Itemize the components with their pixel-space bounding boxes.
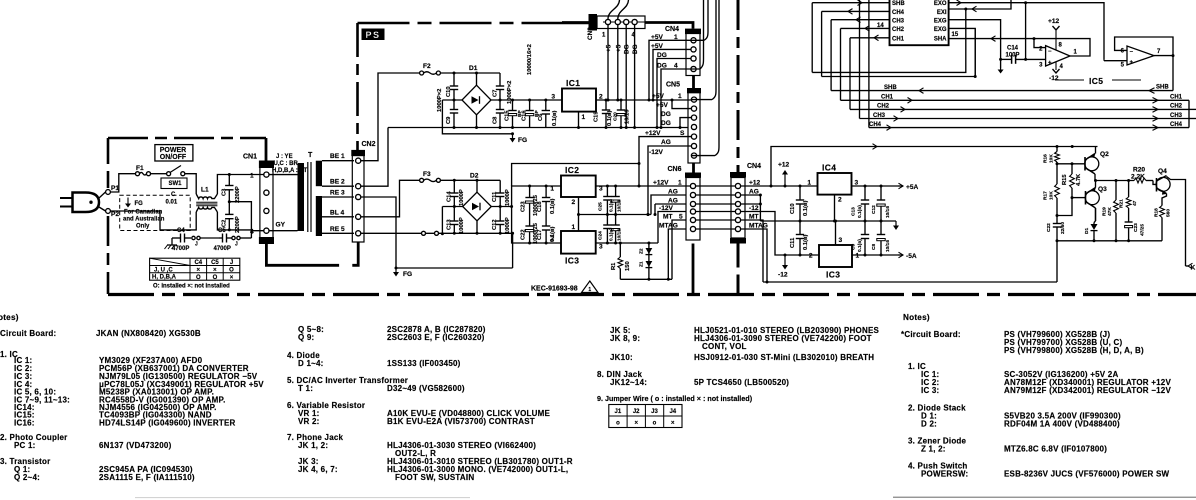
svg-text:560: 560 [1166,209,1172,217]
svg-text:o: o [653,421,657,427]
bridge rectifier D2 [463,173,492,221]
D2 plus raw rail to IC2 [510,186,561,208]
svg-text:Q 2~4:: Q 2~4: [14,473,40,482]
capacitor C24 [598,215,615,244]
svg-text:C14: C14 [446,191,452,202]
svg-text:IC5: IC5 [1089,76,1103,86]
svg-text:O: O [196,275,201,281]
transformer T core [308,162,311,232]
svg-text:C10: C10 [446,86,452,97]
capacitor C8 main [871,221,891,255]
svg-text:0.1(ʙ): 0.1(ʙ) [803,234,809,250]
svg-text:10K: 10K [1049,154,1055,163]
AC plug [60,193,99,213]
CN4 pin wires DG [656,59,692,130]
pin number 14 [877,23,884,29]
svg-text:1SS133 (IF003450): 1SS133 (IF003450) [387,359,461,368]
svg-text:+12: +12 [778,162,790,169]
svg-text:HSJ0912-01-030 ST-Mini (LB3020: HSJ0912-01-030 ST-Mini (LB302010) BREATH [694,353,874,362]
zener diodes Z1 Z2 [639,243,653,279]
svg-text:R17: R17 [1043,191,1049,200]
svg-text:1: 1 [678,179,682,186]
svg-text:CH1: CH1 [1170,95,1183,101]
jumper circles on D2 bottom rail [422,231,439,235]
IC1 pin1 to DG rail [577,112,580,129]
svg-text:4700P: 4700P [172,246,189,252]
CH2 pin wire [841,26,890,32]
svg-text:DG: DG [657,63,667,70]
svg-text:+5V: +5V [656,102,669,109]
svg-text:C22: C22 [1046,223,1052,232]
svg-text:PS (VH799800) XG528B (H, D, A,: PS (VH799800) XG528B (H, D, A, B) [1004,346,1144,355]
-12 wire to IC3 [741,212,819,257]
svg-text:Q2: Q2 [1100,151,1109,158]
svg-text:GY: GY [276,222,286,229]
svg-text:J4: J4 [669,409,676,415]
svg-text:HD74LS14P (IG049600) INVERTER: HD74LS14P (IG049600) INVERTER [99,419,236,428]
svg-text:R15: R15 [1062,174,1068,185]
capacitor C13 ps [446,207,465,235]
svg-text:0.1(ʙ): 0.1(ʙ) [552,110,558,126]
svg-text:EXI: EXI [937,10,947,16]
svg-text:FG: FG [518,137,527,144]
+12 supply arrow [778,162,790,187]
svg-text:SHB: SHB [1156,85,1169,91]
svg-text:H, D,B,A: H, D,B,A [152,275,177,281]
CH3 pin wire [831,17,889,23]
connector CN2 [351,141,375,242]
IC3 main pin3 stub [835,221,837,245]
svg-text:1: 1 [588,287,591,293]
svg-text:C17: C17 [537,229,543,240]
svg-text:D1: D1 [469,65,478,72]
svg-text:JKAN (NX808420) XG530B: JKAN (NX808420) XG530B [96,329,201,338]
CH4 pin loop vertical [821,11,823,76]
capacitor C7 [493,73,505,100]
chassis ground FG left [165,238,178,249]
CN5 pin2 wire [672,100,691,109]
D2 bottom rail [364,232,513,234]
svg-text:C24: C24 [598,231,604,240]
transistor Q3 [1085,181,1107,222]
CN6 pin labels [653,179,683,229]
svg-text:0.1(ʙ): 0.1(ʙ) [803,200,809,216]
wires above CN3 [608,0,629,19]
svg-text:CH3: CH3 [1170,113,1183,119]
svg-text:J2: J2 [633,409,640,415]
svg-text:CH2: CH2 [877,104,890,110]
svg-text:F1: F1 [136,165,144,172]
PS board dashed border (bottom edge) [108,293,1196,296]
CH1 pin wire [850,35,890,41]
capacitor C22 main [1046,216,1066,241]
svg-text:1: 1 [572,224,576,231]
svg-text:×: × [634,421,638,427]
svg-text:×: × [213,268,217,274]
svg-text:Z 1, 2:: Z 1, 2: [921,445,946,454]
capacitor C5 [214,228,232,252]
connector CN1 [243,154,274,245]
terminal P2 [106,209,120,218]
svg-text:DG: DG [657,52,667,59]
svg-text:T: T [308,152,313,159]
svg-text:+5: +5 [615,44,622,52]
connector CN4 PS board [665,26,701,76]
svg-text:C13: C13 [446,219,452,230]
svg-text:and Australian: and Australian [123,217,165,223]
svg-text:VR 2:: VR 2: [298,417,320,426]
pin number 15 [952,32,959,38]
svg-text:O: O [229,268,234,274]
svg-text:RE 5: RE 5 [330,226,345,233]
svg-text:+: + [1130,60,1134,66]
svg-text:C5: C5 [218,228,226,234]
op-amp IC5a -12 supply [1049,62,1060,83]
main board dashed border below CN4 [737,244,740,295]
PS board dashed border (left annex vertical) [107,138,110,294]
CN3 pin labels [606,44,640,54]
bridge rectifier D1 [462,65,491,115]
transformer T secondary winding 1 [316,161,322,187]
wire choke bottom out to CN1 pin4 [217,212,263,231]
capacitor C13 main [851,186,870,221]
IC2 pin2 / IC3 pin1 common [577,197,580,231]
svg-text:-12: -12 [778,272,788,279]
svg-text:C2: C2 [222,220,228,227]
svg-text:2: 2 [572,199,576,206]
svg-text:For Canadian: For Canadian [124,210,163,216]
svg-text:4: 4 [674,63,678,70]
svg-text:Z1: Z1 [639,261,645,267]
CH1 row [841,95,1190,104]
svg-text:R21: R21 [1119,199,1125,208]
svg-text:AN79M12F (XD342001) REGULATOR: AN79M12F (XD342001) REGULATOR −12V [1004,386,1171,395]
svg-text:+12V: +12V [653,179,669,186]
svg-text:D32~49 (VG582600): D32~49 (VG582600) [387,384,465,393]
svg-text:2.2K: 2.2K [1131,174,1145,181]
svg-text:C20: C20 [613,112,619,121]
transformer T secondary winding 2 [316,196,322,236]
resistor R20 [1131,167,1153,183]
svg-text:6N137 (VD473200): 6N137 (VD473200) [99,441,172,450]
svg-text:C23: C23 [1133,223,1139,232]
svg-text:AG: AG [749,188,759,195]
wire C22 down to loop [1056,241,1058,282]
PS border bold segment link to CN2 bottom [352,242,358,265]
capacitor C15 [505,100,524,128]
inductor L1 [196,187,217,213]
svg-text:5P TCS4650 (LB500520): 5P TCS4650 (LB500520) [694,378,789,387]
op-amp IC5b feedback [1115,37,1175,57]
SHB row [831,85,1173,94]
svg-text:C8: C8 [871,244,877,250]
svg-text:JK10:: JK10: [610,353,633,362]
svg-text:0.1(ʙ): 0.1(ʙ) [857,239,863,252]
CN3 pin3 wire down to DG rail [625,25,628,129]
capacitor C10 main [790,186,809,221]
svg-text:10/16: 10/16 [625,109,631,124]
wire CN2 pin5 into D2 bottom rail [361,232,364,234]
svg-text:1000P: 1000P [505,189,511,206]
capacitor C3 [222,175,242,204]
wire F3 to C11 top rail [440,179,500,182]
PS board dashed border (main rectangle top edge) [358,22,590,25]
svg-text:0.1(ʙ): 0.1(ʙ) [857,205,863,218]
regulator IC3 main [809,237,860,280]
svg-text:CH3: CH3 [873,113,886,119]
svg-text:ON/OFF: ON/OFF [160,154,187,161]
label GY [276,222,286,229]
transformer T primary winding [298,152,314,231]
wire choke top out to CN1 pin 1 [217,173,263,194]
svg-text:0.1(ʙ): 0.1(ʙ) [550,198,556,214]
jumper J after C5 [232,236,252,247]
svg-text:R20: R20 [1133,167,1145,174]
FG arrow in option box [125,198,143,208]
svg-text:J: J [235,242,238,248]
IC4 pin2 stub [834,195,836,221]
PS border bold segment into CN1 [265,138,268,161]
capacitor C14 ps [446,180,465,206]
svg-text:CH4: CH4 [1170,122,1183,128]
op-amp IC5a input link [1034,39,1046,48]
svg-text:CN5: CN5 [666,82,680,89]
svg-text:C25: C25 [598,202,604,211]
svg-text:O: installed ×: not install: O: installed ×: not installed [153,284,230,290]
svg-text:DG: DG [632,44,639,54]
CN3 pin2 wire down to +5 rail [616,25,619,102]
capacitor C12 main [871,186,891,221]
svg-text:×: × [197,268,201,274]
wire tap BE2 to CN2 [322,179,354,187]
CN5 pin labels [645,93,685,156]
svg-text:1: 1 [807,179,811,186]
CH3 row [860,113,1196,122]
D2 right corner node wire [491,205,511,208]
svg-text:PC 1:: PC 1: [14,441,36,450]
collector rail Q2/Q3 [1094,179,1134,182]
svg-text:1000P: 1000P [459,217,465,234]
svg-text:+: + [1048,61,1052,67]
svg-text:10/16: 10/16 [617,200,623,212]
svg-text:2SC2603 E, F (IC260320): 2SC2603 E, F (IC260320) [387,333,485,342]
svg-text:CN4: CN4 [665,26,679,33]
svg-text:MTAG: MTAG [749,222,768,229]
svg-text:2SA1115 E, F (IA111510): 2SA1115 E, F (IA111510) [99,473,195,482]
connector CN3 [587,14,645,40]
svg-text:R18: R18 [1154,208,1160,217]
svg-text:CH2: CH2 [892,27,905,33]
CN4 pin3 wire [741,203,762,206]
svg-text:POWER: POWER [160,147,186,154]
svg-text:C16: C16 [522,110,528,121]
FG option dashed box [120,195,191,230]
PS border bold wire CN3 to CN4 [562,22,693,29]
node Q2 base rail [1056,162,1086,165]
svg-text:22/50: 22/50 [1060,222,1066,234]
svg-text:IC3: IC3 [565,256,579,266]
CH4 pin wire [822,9,890,15]
svg-text:100P: 100P [1006,53,1020,59]
outer loop vertical a [859,0,861,119]
svg-text:+5: +5 [606,44,613,52]
svg-text:Q 9:: Q 9: [298,333,314,342]
svg-text:1: 1 [582,114,586,121]
PS board dashed border (main left vertical) [356,23,359,150]
op-amp IC5b [1121,46,1161,69]
CN5 pin1 wire to +5 rail [690,99,692,101]
svg-text:B1K EVU-E2A (VI573700) CONTRAS: B1K EVU-E2A (VI573700) CONTRAST [387,417,535,426]
svg-text:F2: F2 [423,63,431,70]
transistor Q2 [1085,147,1109,181]
EXO link down to C14 line [1024,3,1027,61]
svg-text:C22: C22 [521,229,527,240]
svg-text:+12: +12 [749,179,761,186]
svg-text:3: 3 [551,94,555,101]
resistor R1 [611,243,631,279]
svg-text:EXG: EXG [934,27,947,33]
wire P1 up to top rail [111,174,136,192]
svg-text:C11: C11 [492,191,498,202]
capacitor C22 ps [521,215,540,245]
wire CN2 pin1 up to F2 [361,73,420,161]
fuse F3 [420,171,441,182]
svg-text:DG: DG [661,111,671,118]
AG risers to CN6 [651,195,686,216]
svg-text:BE 2: BE 2 [330,179,345,186]
aux row 1 [812,8,967,73]
CN5 pin1 wire up to main board [691,0,716,100]
diode D1 small [1084,208,1098,241]
svg-text:4.7K: 4.7K [1076,173,1082,186]
jumper J after C4 [192,236,219,247]
svg-text:2200P: 2200P [235,186,241,203]
resistor R18 [1154,194,1172,241]
svg-text:0.1(ʙ): 0.1(ʙ) [607,110,613,126]
capacitor C18 ps [537,186,556,215]
svg-text:1: 1 [856,252,860,259]
svg-text:SHA: SHA [934,36,947,42]
svg-text:C4: C4 [194,260,202,266]
wire P2 to choke bottom rail [111,211,197,230]
wire D2 bottom rail down to FG line [511,232,514,268]
svg-text:J1: J1 [615,409,622,415]
svg-text:J3: J3 [651,409,658,415]
svg-text:AG: AG [661,139,671,146]
svg-text:C12: C12 [871,205,877,214]
PS border bold segment below CN6 [692,244,695,295]
op-amp IC5a feedback [1034,39,1090,56]
svg-text:RDF04M 1A 400V (VD488400): RDF04M 1A 400V (VD488400) [1004,420,1120,429]
svg-text:-12V: -12V [649,149,664,156]
svg-text:10/16: 10/16 [885,206,891,218]
mid AG rail [760,220,896,223]
capacitor C6 [538,100,558,128]
CH3 pin loop vertical [830,20,832,91]
svg-text:1000P: 1000P [459,189,465,206]
label 1000Px2 left [437,89,443,112]
svg-text:R19: R19 [1102,207,1108,216]
wire rail to D2 top corner [476,180,478,192]
svg-text:C7: C7 [493,90,499,97]
svg-text:RE 3: RE 3 [330,190,345,197]
PS board label PS [362,29,385,41]
SHB pin loop vertical [811,3,813,73]
-12 rail riser to CN6 [658,212,686,244]
svg-text:9. Jumper Wire ( o : install: 9. Jumper Wire ( o : installed × : not i… [597,394,753,403]
svg-text:2: 2 [809,252,813,259]
SHB pin wire [812,0,889,5]
svg-text:C12: C12 [492,219,498,230]
D2 bypass line [512,164,639,187]
CH4 row [869,122,1189,130]
capacitor C2 [222,202,242,233]
CN4 pin wires +5V [649,40,691,101]
resistor R17 [1043,164,1060,216]
svg-text:*Circuit Board:: *Circuit Board: [901,330,961,339]
svg-text:C13: C13 [851,207,857,216]
svg-text:C23: C23 [521,201,527,212]
CN5 pin5 wire +12VS [638,137,692,188]
svg-text:IC 3:: IC 3: [921,386,939,395]
CH1 pin loop vertical [849,38,851,110]
svg-text:C9: C9 [446,116,452,124]
svg-text:R1: R1 [611,262,617,270]
CN1 wire color labels [272,154,307,174]
EXI pin wire [949,0,1011,12]
svg-text:−: − [1130,50,1134,56]
svg-text:C15: C15 [505,110,511,121]
snubber C 0.01 box [161,178,187,205]
-12 supply arrow [778,255,788,279]
svg-text:J: J [230,260,233,266]
svg-text:U,C : BR: U,C : BR [274,161,299,167]
svg-text:L1: L1 [201,187,209,194]
MTAG riser [668,229,686,279]
capacitor C23 ps [521,186,540,216]
svg-text:Only: Only [136,224,150,230]
svg-text:CONT, VOL: CONT, VOL [702,342,747,351]
IC left pin labels [892,1,905,42]
svg-text:AG: AG [668,188,678,195]
svg-text:Circuit Board:: Circuit Board: [0,329,56,338]
svg-text:D 2:: D 2: [921,420,937,429]
CN4 main pin labels [749,179,768,229]
svg-text:+5V: +5V [652,93,665,100]
CN4 PS pin labels [651,34,678,70]
svg-text:1: 1 [250,173,254,180]
op-amp IC5a [1039,42,1077,70]
op-amp IC5a +12 supply [1048,18,1060,50]
svg-text:CH4: CH4 [869,122,882,128]
svg-text:MT: MT [663,213,673,220]
svg-text:C8: C8 [493,116,499,124]
wire tap RE3 to CN2 [322,190,354,198]
svg-text:1: 1 [678,93,682,100]
svg-text:×: × [230,275,234,281]
svg-text:-12: -12 [749,205,759,212]
bottom node rail [1056,239,1163,242]
svg-text:3: 3 [855,179,859,186]
svg-text:1000P: 1000P [505,217,511,234]
svg-text:J, U ,C: J, U ,C [154,267,173,273]
svg-text:K: K [1191,265,1196,272]
resistor R15 [1062,164,1082,198]
connector CN4 main board [730,163,761,244]
capacitor C11 ps [492,180,511,206]
CN5 pin7 wire up to main board [691,0,719,156]
+5A output rail [852,185,899,188]
